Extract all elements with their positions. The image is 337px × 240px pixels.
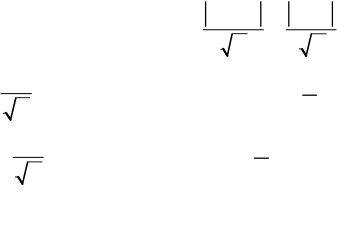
fraction B: radical sign in denominator bbox=[299, 34, 326, 56]
minus sign, line 2 bbox=[302, 94, 317, 96]
minus sign, line 3 bbox=[254, 157, 269, 159]
fraction A: right absolute-value bar bbox=[260, 1, 262, 26]
fraction A: left absolute-value bar bbox=[205, 1, 207, 26]
fraction C: fraction bar bbox=[1, 93, 32, 95]
fraction A: radical sign in denominator bbox=[221, 34, 248, 56]
fraction B: fraction bar bbox=[286, 29, 337, 31]
fraction C: radical sign in denominator bbox=[3, 98, 30, 120]
fraction B: left absolute-value bar bbox=[288, 1, 290, 26]
fraction A: fraction bar bbox=[203, 29, 264, 31]
fraction D: radical sign in denominator bbox=[15, 162, 42, 184]
fraction B: right absolute-value bar bbox=[331, 1, 333, 26]
fraction D: fraction bar bbox=[13, 156, 44, 158]
